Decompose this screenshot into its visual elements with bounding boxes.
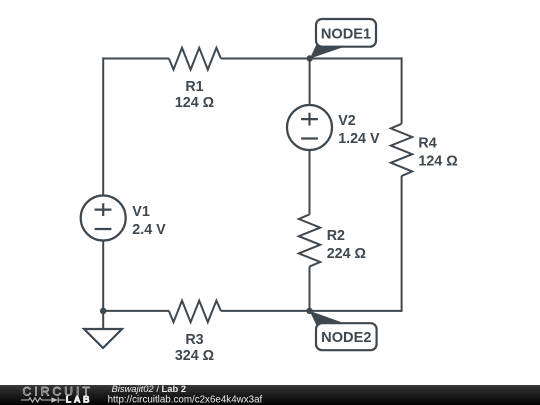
svg-text:http://circuitlab.com/c2x6e4k4: http://circuitlab.com/c2x6e4k4wx3af [108, 394, 263, 405]
svg-text:R4: R4 [418, 136, 436, 152]
wire left upper segment [102, 57, 104, 195]
resistor R1 [169, 48, 221, 70]
svg-text:Biswajit02 / Lab 2: Biswajit02 / Lab 2 [112, 383, 187, 394]
resistor R4 [391, 124, 412, 176]
wire middle upper segment [309, 59, 311, 106]
svg-text:2.4 V: 2.4 V [132, 222, 166, 238]
CircuitLab logo resistor-diode glyph [21, 397, 65, 403]
voltage source V1 [81, 196, 126, 241]
resistor R2 [299, 214, 320, 266]
wire right lower segment [401, 176, 403, 312]
svg-text:124 Ω: 124 Ω [175, 95, 214, 111]
svg-text:124 Ω: 124 Ω [418, 154, 457, 170]
wire right upper segment [401, 57, 403, 124]
voltage source V2 [287, 105, 332, 150]
resistor R3 [169, 301, 221, 323]
svg-text:V1: V1 [132, 204, 150, 220]
node NODE1 flag [310, 19, 376, 59]
svg-text:324 Ω: 324 Ω [175, 348, 214, 364]
svg-text:NODE2: NODE2 [321, 330, 371, 346]
footer bar [0, 385, 540, 405]
svg-text:1.24 V: 1.24 V [338, 131, 380, 147]
ground [84, 311, 122, 348]
wire bottom-right segment [221, 310, 402, 312]
svg-text:224 Ω: 224 Ω [327, 246, 366, 262]
wire middle lower segment [309, 266, 311, 311]
junction dot at NODE2 [306, 308, 312, 314]
wire top-left segment [103, 58, 169, 60]
wire top-right segment [221, 58, 402, 60]
svg-text:LAB: LAB [66, 394, 92, 404]
wire bottom-left segment [103, 310, 169, 312]
svg-text:R3: R3 [185, 332, 203, 348]
svg-text:R1: R1 [185, 79, 203, 95]
svg-text:R2: R2 [327, 228, 345, 244]
junction dot at NODE1 [307, 55, 313, 61]
junction dot at ground node [100, 308, 107, 315]
svg-text:V2: V2 [338, 113, 356, 129]
svg-text:NODE1: NODE1 [321, 26, 371, 42]
wire left lower segment [102, 241, 104, 312]
node NODE2 flag [310, 311, 377, 350]
wire middle mid segment [309, 150, 311, 215]
